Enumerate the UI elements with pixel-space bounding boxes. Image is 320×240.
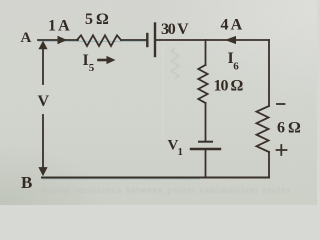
cyan scan fringe under bottom wire xyxy=(42,178,200,180)
svg-text:5 Ω: 5 Ω xyxy=(85,11,109,28)
wire resistor to battery 30V xyxy=(121,39,146,41)
wire right side top down to 6 ohm xyxy=(268,40,270,106)
plus sign near 6 ohm xyxy=(277,145,287,155)
wire 10 ohm to battery V1 xyxy=(205,103,207,141)
resistor 6 ohm xyxy=(257,106,270,152)
svg-text:6 Ω: 6 Ω xyxy=(277,120,301,137)
svg-text:B: B xyxy=(21,173,32,192)
arrowhead 1A on top wire xyxy=(58,36,68,44)
wire battery 30V to top-right corner xyxy=(156,39,269,41)
svg-text:V: V xyxy=(38,93,50,110)
voltage V arrow lower shaft xyxy=(42,115,44,168)
arrowhead 4A on top wire xyxy=(225,36,236,44)
minus sign near 6 ohm xyxy=(277,103,285,105)
battery 30V short plate xyxy=(146,34,148,46)
wire battery V1 to bottom wire xyxy=(205,150,207,178)
voltage V arrow upper shaft xyxy=(42,49,44,85)
svg-text:1: 1 xyxy=(178,146,184,158)
wire top junction down to 10 ohm xyxy=(205,40,207,65)
resistor 10 ohm xyxy=(198,65,207,103)
svg-text:30 V: 30 V xyxy=(161,21,189,38)
svg-text:6: 6 xyxy=(233,61,239,73)
battery 30V long plate xyxy=(154,24,156,57)
svg-text:4 A: 4 A xyxy=(221,17,243,34)
svg-text:I: I xyxy=(83,52,89,69)
arrowhead I5 xyxy=(107,56,116,64)
faint bleed-through text bottom xyxy=(42,185,310,195)
I5 arrow tail xyxy=(99,59,108,62)
svg-text:1 A: 1 A xyxy=(48,17,70,34)
svg-text:5: 5 xyxy=(89,62,95,74)
battery V1 short plate xyxy=(199,141,212,143)
svg-text:A: A xyxy=(21,30,32,46)
wire 6 ohm to bottom wire xyxy=(268,152,270,178)
arrowhead V bottom xyxy=(38,167,47,176)
svg-text:10 Ω: 10 Ω xyxy=(214,78,244,95)
resistor 5 ohm xyxy=(77,35,121,46)
arrowhead V top xyxy=(38,41,47,50)
bottom wire B to right corner xyxy=(42,177,269,179)
paper crease highlight xyxy=(162,42,164,140)
wire node A to resistor xyxy=(38,39,78,41)
battery V1 long plate xyxy=(191,148,220,150)
bleed-through ghost resistor xyxy=(171,48,179,79)
cyan scan fringe under top wire xyxy=(38,40,146,42)
